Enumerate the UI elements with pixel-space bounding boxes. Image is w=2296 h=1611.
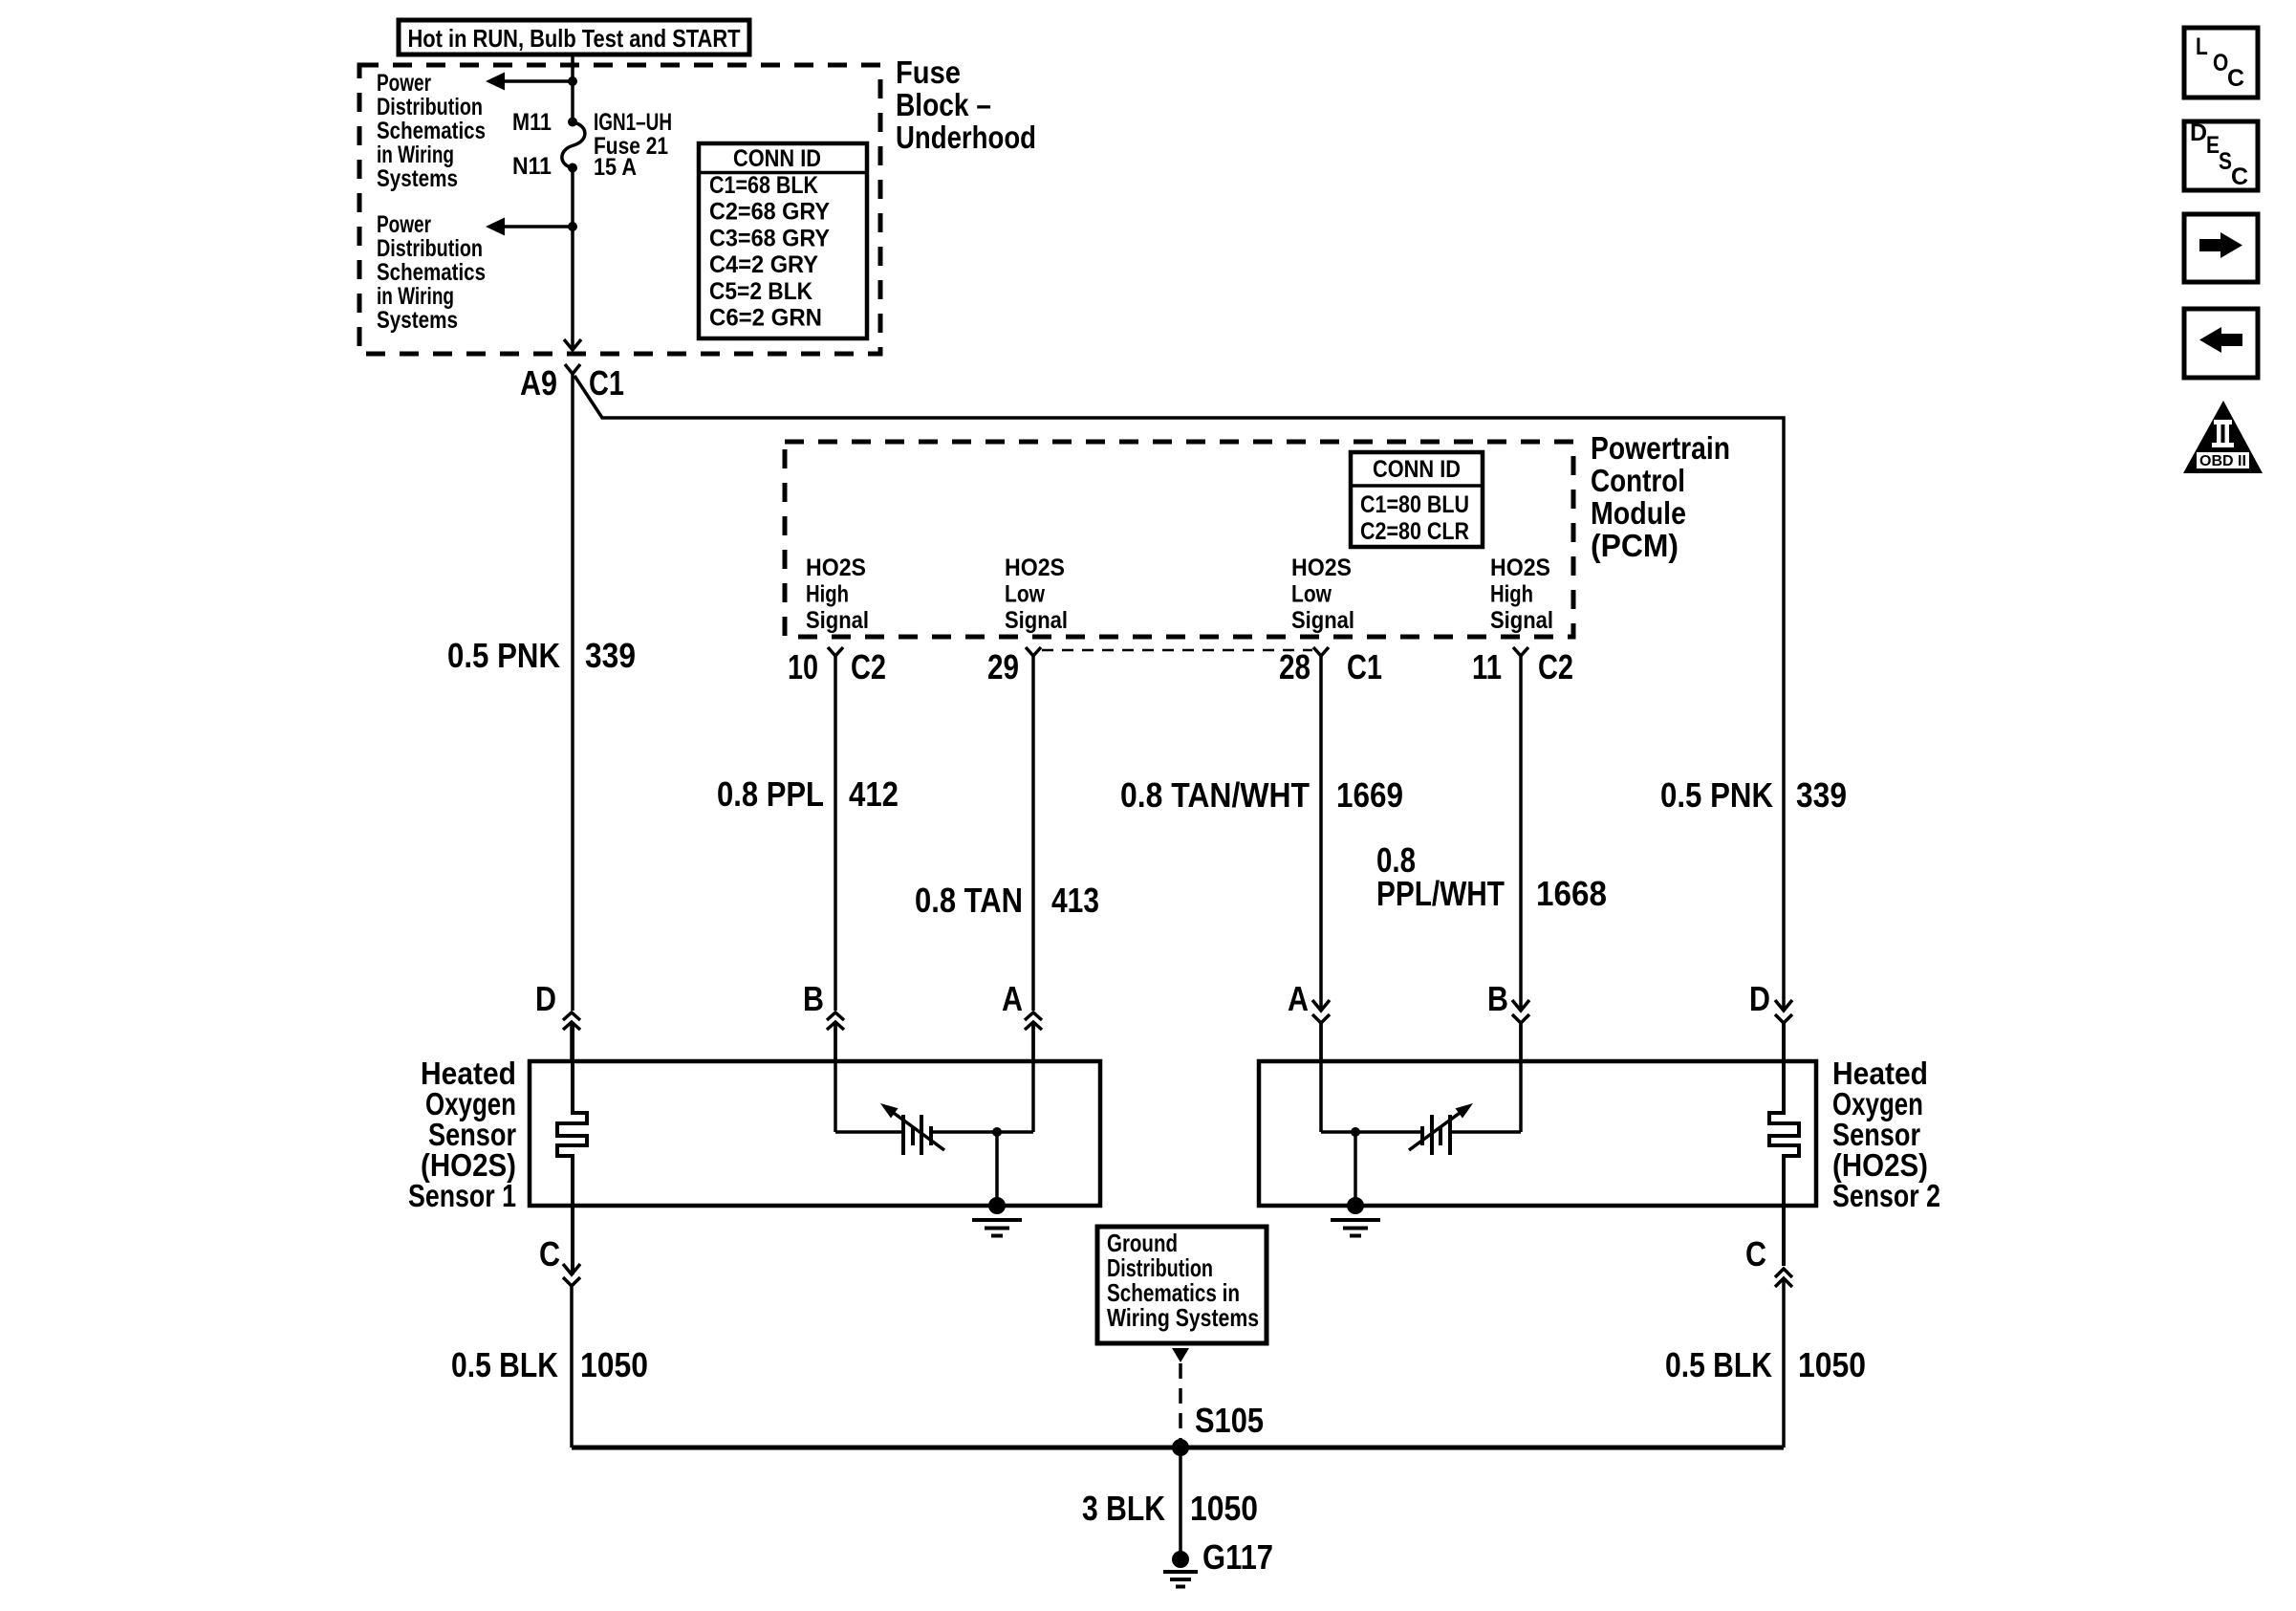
svg-text:C5=2 BLK: C5=2 BLK — [709, 278, 812, 305]
svg-text:E: E — [2206, 132, 2220, 159]
label HO2S signal (pin28) — [1291, 555, 1354, 634]
label 339 (left) — [585, 636, 636, 675]
label 3 BLK — [1082, 1489, 1165, 1528]
svg-text:HO2S: HO2S — [806, 555, 866, 581]
svg-text:C3=68 GRY: C3=68 GRY — [709, 225, 830, 251]
svg-text:CONN ID: CONN ID — [733, 145, 821, 172]
svg-text:A: A — [1288, 979, 1309, 1018]
label C1 (pin 28) — [1347, 647, 1382, 686]
label 1050 (left) — [580, 1345, 648, 1384]
label C (sensor 2) — [1745, 1234, 1766, 1274]
svg-text:C2: C2 — [1538, 647, 1573, 686]
wire: flag box feed down — [571, 54, 574, 82]
label 339 (right) — [1796, 775, 1847, 815]
svg-text:0.5 PNK: 0.5 PNK — [1660, 775, 1773, 815]
label HO2S signal (pin10) — [806, 555, 869, 634]
node: junction dot lower — [568, 222, 577, 231]
label D (sensor 2) — [1749, 979, 1770, 1018]
heater element (sensor 2) — [1769, 1023, 1799, 1266]
wire: B into sensor 1 — [834, 1022, 837, 1132]
wire: B into sensor 2 — [1519, 1023, 1523, 1132]
svg-text:413: 413 — [1051, 881, 1099, 920]
svg-text:A: A — [1002, 979, 1023, 1018]
svg-text:OBD II: OBD II — [2199, 453, 2246, 469]
connector pin 28 C1 (Y symbol) — [1313, 647, 1329, 656]
wire: sensor 2 internal right — [1450, 1130, 1521, 1134]
wire: sensor1 C to splice bus — [570, 1286, 574, 1448]
svg-text:Distribution: Distribution — [377, 235, 483, 262]
label C (sensor 1) — [539, 1234, 560, 1274]
arrow: fuse output at box edge (open arrowhead) — [564, 339, 581, 350]
heater element (sensor 1) — [557, 1023, 587, 1274]
svg-text:412: 412 — [849, 774, 899, 814]
svg-text:Low: Low — [1005, 581, 1045, 608]
node: sensor 1 internal junction — [992, 1127, 1002, 1137]
icon LOC — [2184, 28, 2258, 98]
svg-text:Module: Module — [1591, 495, 1686, 531]
label 1669 — [1336, 775, 1403, 815]
svg-text:15 A: 15 A — [594, 154, 637, 181]
label 0.5 PNK (left) — [447, 636, 560, 675]
svg-text:CONN ID: CONN ID — [1373, 456, 1461, 483]
sensor 1 box (HO2S) — [530, 1061, 1100, 1206]
variable arrow (sensor 2) — [1409, 1103, 1473, 1150]
svg-text:High: High — [806, 581, 849, 608]
label HO2S signal (pin29) — [1005, 555, 1068, 634]
svg-text:Hot in RUN, Bulb Test and STAR: Hot in RUN, Bulb Test and START — [408, 24, 741, 53]
svg-text:0.8 TAN/WHT: 0.8 TAN/WHT — [1120, 775, 1310, 815]
wire: branch from A9 to right side — [574, 376, 1784, 1011]
connector pin 11 C2 (Y symbol) — [1513, 647, 1528, 656]
svg-text:11: 11 — [1472, 647, 1502, 686]
svg-text:M11: M11 — [512, 109, 552, 136]
svg-text:Power: Power — [377, 70, 431, 97]
label D (sensor 1) — [535, 979, 556, 1018]
connector D (sensor 1, chevrons up) — [563, 1012, 580, 1061]
svg-text:HO2S: HO2S — [1005, 555, 1065, 581]
fuse block - underhood dashed outline — [359, 65, 880, 354]
sensor 2 box (HO2S) — [1259, 1061, 1816, 1206]
svg-text:29: 29 — [987, 647, 1019, 686]
wire: pin 11 to sensor2 B — [1519, 656, 1523, 1011]
svg-text:C: C — [2227, 65, 2244, 92]
label Fuse Block - Underhood — [896, 54, 1036, 155]
label 413 — [1051, 881, 1099, 920]
arrow: to power distribution schematics (top) — [486, 73, 573, 91]
sensor cell plates (sensor 1) — [903, 1115, 931, 1155]
label 0.8 TAN — [915, 881, 1023, 920]
arrow: ground distribution pointer (solid triangle down) — [1172, 1348, 1189, 1362]
icon forward arrow — [2184, 214, 2258, 282]
flag box: Hot in RUN, Bulb Test and START — [399, 20, 749, 54]
label IGN1-UH Fuse 21 15 A — [594, 109, 672, 181]
label Heated Oxygen Sensor (HO2S) Sensor 1 — [408, 1056, 516, 1213]
label B (sensor 1) — [803, 979, 824, 1018]
svg-text:Control: Control — [1591, 463, 1685, 498]
label HO2S signal (pin11) — [1490, 555, 1553, 634]
PCM dashed outline — [785, 442, 1573, 637]
label 0.8 TAN/WHT — [1120, 775, 1310, 815]
svg-text:in Wiring: in Wiring — [377, 283, 454, 310]
label M11 — [512, 109, 552, 136]
wire: junction to fuse M11 — [571, 81, 574, 122]
svg-text:S105: S105 — [1195, 1401, 1264, 1440]
svg-text:1050: 1050 — [580, 1345, 648, 1384]
label C2 (pin 11) — [1538, 647, 1573, 686]
label 0.8 PPL/WHT — [1376, 840, 1505, 913]
label S105 — [1195, 1401, 1264, 1440]
wire: pin 29 to sensor1 A — [1031, 656, 1035, 1011]
svg-text:1050: 1050 — [1190, 1489, 1258, 1528]
svg-text:C1: C1 — [1347, 647, 1382, 686]
svg-text:L: L — [2196, 33, 2208, 60]
fuse IGN1-UH Fuse 21 15A (element) — [562, 118, 585, 173]
svg-text:Signal: Signal — [806, 607, 869, 634]
sensor cell plates (sensor 2) — [1422, 1115, 1450, 1155]
svg-text:C4=2 GRY: C4=2 GRY — [709, 251, 818, 278]
svg-text:339: 339 — [1796, 775, 1847, 815]
label pin 10 — [788, 647, 818, 686]
svg-text:S: S — [2219, 148, 2232, 175]
wire: pin 28 to sensor2 A — [1319, 656, 1323, 1011]
svg-text:10: 10 — [788, 647, 818, 686]
svg-text:C: C — [539, 1234, 560, 1274]
label A (sensor 1) — [1002, 979, 1023, 1018]
wire: A into sensor 1 — [1031, 1022, 1035, 1132]
connector B (sensor 1, chevrons up) — [827, 1012, 844, 1061]
svg-text:Sensor 1: Sensor 1 — [408, 1178, 516, 1213]
svg-text:N11: N11 — [512, 153, 552, 180]
svg-text:in Wiring: in Wiring — [377, 142, 454, 168]
icon OBD II triangle — [2183, 401, 2263, 473]
label 0.5 BLK (right) — [1665, 1345, 1772, 1384]
node: junction dot top — [568, 76, 577, 86]
connector pin 29 (Y symbol) — [1026, 647, 1041, 656]
wire: fuse N11 down to exit arrow — [571, 168, 574, 350]
svg-text:IGN1–UH: IGN1–UH — [594, 109, 672, 136]
svg-text:Systems: Systems — [377, 307, 458, 334]
icon DESC — [2184, 120, 2258, 190]
label 1050 (S105-G117) — [1190, 1489, 1258, 1528]
svg-text:B: B — [803, 979, 824, 1018]
svg-text:28: 28 — [1279, 647, 1310, 686]
svg-text:HO2S: HO2S — [1291, 555, 1352, 581]
label C2 (pin 10) — [851, 647, 886, 686]
splice S105 — [1172, 1439, 1189, 1456]
svg-text:0.5 BLK: 0.5 BLK — [1665, 1345, 1772, 1384]
svg-text:C2=80 CLR: C2=80 CLR — [1360, 518, 1469, 545]
wire: pin 10 to sensor1 B — [834, 656, 837, 1011]
connector A (sensor 1, chevrons up) — [1025, 1012, 1042, 1061]
label 1050 (right) — [1798, 1345, 1866, 1384]
svg-text:Low: Low — [1291, 581, 1332, 608]
wire: junction to sensor 2 ground — [1354, 1132, 1357, 1206]
svg-text:C: C — [2231, 163, 2248, 190]
label 0.8 PPL — [717, 774, 824, 814]
variable arrow (sensor 1) — [880, 1103, 944, 1150]
label pin 29 — [987, 647, 1019, 686]
svg-text:Block –: Block – — [896, 87, 991, 122]
svg-text:Signal: Signal — [1005, 607, 1068, 634]
label: Power Distribution Schematics in Wiring Systems (bottom) — [377, 211, 486, 334]
connector pin 10 C2 (Y symbol) — [828, 647, 843, 656]
ground (sensor 1 case) — [972, 1197, 1022, 1236]
svg-text:Powertrain: Powertrain — [1591, 430, 1730, 466]
wire: A9 down to sensor 1 pin D — [571, 374, 574, 1011]
label pin 11 — [1472, 647, 1502, 686]
ground bus wire — [572, 1446, 1784, 1450]
label Heated Oxygen Sensor (HO2S) Sensor 2 — [1832, 1056, 1940, 1213]
svg-text:C1=80 BLU: C1=80 BLU — [1360, 491, 1469, 518]
svg-text:3 BLK: 3 BLK — [1082, 1489, 1165, 1528]
svg-text:Underhood: Underhood — [896, 120, 1036, 155]
wire: A into sensor 2 — [1319, 1023, 1323, 1132]
arrow: to power distribution schematics (bottom) — [486, 218, 573, 236]
svg-text:A9: A9 — [520, 363, 557, 403]
svg-text:G117: G117 — [1202, 1537, 1273, 1577]
wire: sensor2 C to splice bus — [1782, 1279, 1786, 1448]
label N11 — [512, 153, 552, 180]
label C1 — [589, 363, 624, 403]
wire: S105 to G117 — [1179, 1448, 1182, 1559]
svg-text:C: C — [1745, 1234, 1766, 1274]
svg-text:0.8 TAN: 0.8 TAN — [915, 881, 1023, 920]
label 1668 — [1536, 874, 1607, 913]
svg-text:C2: C2 — [851, 647, 886, 686]
svg-text:Sensor 2: Sensor 2 — [1832, 1178, 1940, 1213]
ground (sensor 2 case) — [1331, 1197, 1380, 1236]
connector C (sensor 1, arrow down) — [563, 1264, 580, 1286]
dashed wire to splice S105 — [1179, 1363, 1182, 1440]
svg-text:High: High — [1490, 581, 1533, 608]
icon back arrow — [2184, 309, 2258, 378]
svg-text:0.8 PPL: 0.8 PPL — [717, 774, 824, 814]
svg-text:D: D — [1749, 979, 1770, 1018]
svg-text:O: O — [2213, 50, 2228, 76]
connector A9 C1 (Y symbol) — [565, 364, 580, 374]
svg-text:Signal: Signal — [1490, 607, 1553, 634]
connector D (sensor 2, arrow down) — [1775, 1000, 1792, 1061]
svg-text:Signal: Signal — [1291, 607, 1354, 634]
wire: junction to plates (sensor 2) — [1355, 1130, 1422, 1134]
Ground Distribution Schematics box — [1097, 1227, 1267, 1343]
svg-text:C6=2 GRN: C6=2 GRN — [709, 305, 822, 332]
connector B (sensor 2, arrow down) — [1512, 1000, 1529, 1061]
svg-text:D: D — [535, 979, 556, 1018]
svg-text:Schematics: Schematics — [377, 118, 486, 144]
label 0.5 PNK (right) — [1660, 775, 1773, 815]
svg-text:Schematics: Schematics — [377, 259, 486, 286]
svg-text:Fuse: Fuse — [896, 54, 961, 90]
label G117 — [1202, 1537, 1273, 1577]
node: sensor 2 internal junction — [1351, 1127, 1360, 1137]
svg-text:PPL/WHT: PPL/WHT — [1376, 874, 1505, 913]
label A (sensor 2) — [1288, 979, 1309, 1018]
svg-text:1669: 1669 — [1336, 775, 1403, 815]
svg-text:Systems: Systems — [377, 165, 458, 192]
svg-text:C2=68 GRY: C2=68 GRY — [709, 199, 830, 226]
wire: sensor 1 internal left — [835, 1130, 903, 1134]
svg-text:0.5 BLK: 0.5 BLK — [451, 1345, 558, 1384]
svg-text:HO2S: HO2S — [1490, 555, 1550, 581]
CONN ID table (fuse block) — [699, 143, 867, 338]
svg-text:D: D — [2190, 120, 2207, 146]
svg-text:Power: Power — [377, 211, 431, 238]
connector A (sensor 2, arrow down) — [1312, 1000, 1330, 1061]
wire: sensor 2 internal left — [1321, 1130, 1355, 1134]
connector C (sensor 2, chevrons up) — [1775, 1269, 1792, 1287]
svg-text:1050: 1050 — [1798, 1345, 1866, 1384]
label 412 — [849, 774, 899, 814]
thin dashed connector line between pins 29 and 28 — [1042, 649, 1312, 652]
svg-text:C1: C1 — [589, 363, 624, 403]
svg-text:C1=68 BLK: C1=68 BLK — [709, 172, 818, 199]
svg-text:B: B — [1487, 979, 1508, 1018]
wire: sensor 1 internal right — [931, 1130, 1033, 1134]
svg-text:(PCM): (PCM) — [1591, 528, 1679, 563]
label B (sensor 2) — [1487, 979, 1508, 1018]
svg-text:339: 339 — [585, 636, 636, 675]
svg-text:Wiring Systems: Wiring Systems — [1107, 1303, 1259, 1332]
label 0.5 BLK (left) — [451, 1345, 558, 1384]
svg-text:1668: 1668 — [1536, 874, 1607, 913]
ground G117 — [1163, 1551, 1198, 1587]
CONN ID table (PCM) — [1351, 452, 1483, 547]
wire: junction to sensor 1 ground — [995, 1132, 999, 1206]
svg-text:Distribution: Distribution — [377, 94, 483, 120]
label Powertrain Control Module (PCM) — [1591, 430, 1730, 563]
label A9 — [520, 363, 557, 403]
svg-text:0.5 PNK: 0.5 PNK — [447, 636, 560, 675]
label pin 28 — [1279, 647, 1310, 686]
label: Power Distribution Schematics in Wiring Systems (top) — [377, 70, 486, 192]
